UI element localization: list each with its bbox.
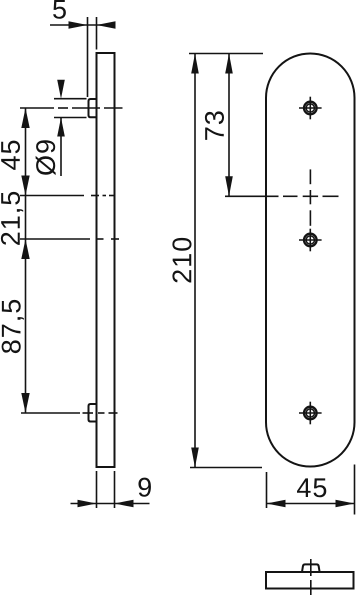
dimension diameter 9 extension line bottom [54, 117, 87, 119]
dimension 5 arrow left [69, 21, 88, 29]
chain arrow up at middle hole axis [21, 239, 29, 259]
dimension 5 extension line left [87, 17, 89, 97]
dimension 45 arrow left [267, 500, 286, 508]
dimension 9 text [138, 478, 150, 497]
dimension diameter 9 extension line top [54, 98, 87, 100]
dimension diameter 9 text [36, 140, 56, 175]
bottom screw hole [299, 402, 322, 425]
top extension line [189, 53, 263, 55]
dimension 73 arrow bottom [225, 176, 233, 196]
axis line of bottom hole, side view [21, 412, 80, 414]
top screw hole [299, 97, 322, 120]
dimension 9 extension line left [96, 471, 98, 508]
axis line of middle hole, side view [20, 238, 90, 240]
axis line of lever, side view [20, 195, 84, 197]
middle screw hole [299, 229, 322, 252]
dimension diameter 9 arrow bottom [57, 118, 65, 137]
bottom view center line [310, 559, 312, 576]
side view bottom screw boss [89, 404, 97, 422]
dimension diameter 9 arrow top [57, 80, 65, 99]
dimension 73 text [205, 111, 224, 139]
dimension 210 arrow top [191, 54, 199, 74]
dimension 9 extension line right [114, 471, 116, 508]
lever axis extension line, front view [225, 195, 279, 197]
dimension 73 arrow top [225, 54, 233, 74]
bottom view plate [266, 572, 354, 589]
left dimension chain line [25, 108, 27, 413]
dimension 9 arrow right [115, 500, 134, 508]
side view plate outline [97, 53, 115, 467]
dimension 5 line [50, 24, 115, 26]
dimension 5 text [53, 0, 66, 19]
dimension 45 extension line left [266, 472, 268, 508]
dimension 5 extension line right [96, 17, 98, 50]
dimension 73 line [228, 54, 230, 197]
dimension 87,5 text [2, 300, 24, 353]
side view top screw boss [89, 99, 97, 117]
dimension 5 arrow right [97, 21, 116, 29]
bottom view screw boss [302, 564, 320, 572]
bottom extension line [190, 467, 262, 469]
dimension diameter 9 leader line [60, 118, 62, 177]
dimension 210 text [172, 238, 191, 283]
dimension 45 line [267, 503, 355, 505]
dimension 45 arrow right [336, 500, 355, 508]
dimension 45 bottom text [297, 478, 326, 497]
dimension 210 arrow bottom [191, 448, 199, 468]
dimension 45 text left [1, 141, 20, 170]
lever axis vertical dashed line, front view [309, 169, 311, 184]
dimension 9 line [71, 503, 150, 505]
axis line of top hole, side view [20, 107, 54, 109]
front view plate outline [266, 54, 355, 467]
dimension 45 extension line right [354, 465, 356, 515]
dimension 210 line [194, 54, 196, 468]
dimension 9 arrow left [78, 500, 97, 508]
chain arrow up at top hole axis [21, 108, 29, 128]
dimension 21,5 text [1, 192, 23, 245]
chain arrow down at bottom hole axis [21, 393, 29, 413]
chain arrow down at lever axis [21, 176, 29, 196]
